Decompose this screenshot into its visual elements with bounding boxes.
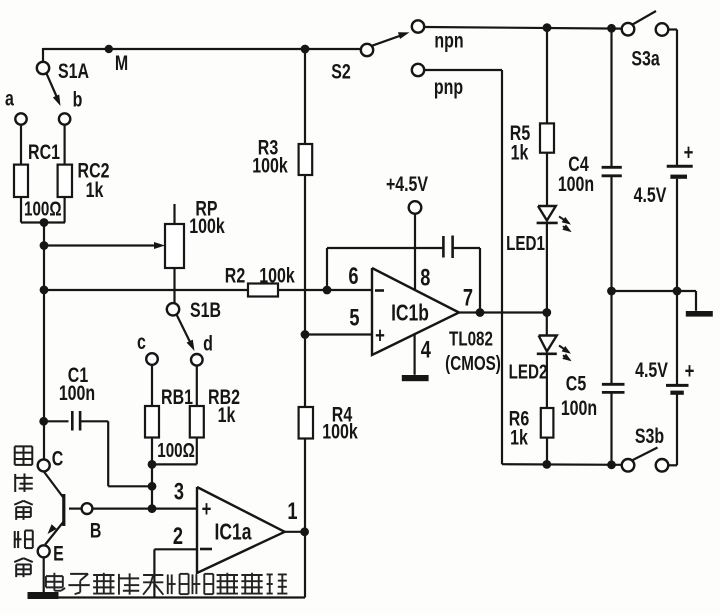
- svg-text:S3a: S3a: [631, 46, 660, 70]
- svg-text:4.5V: 4.5V: [634, 183, 667, 207]
- svg-text:B: B: [90, 518, 102, 542]
- svg-text:E: E: [53, 541, 64, 565]
- svg-text:5: 5: [349, 304, 359, 331]
- svg-text:+: +: [685, 359, 695, 384]
- svg-text:100Ω: 100Ω: [157, 439, 195, 462]
- svg-text:2: 2: [173, 523, 183, 550]
- svg-text:TL082: TL082: [449, 327, 493, 350]
- svg-text:b: b: [73, 87, 83, 111]
- svg-text:1k: 1k: [86, 178, 104, 202]
- svg-text:a: a: [5, 86, 14, 110]
- svg-text:3: 3: [174, 478, 184, 505]
- svg-text:100Ω: 100Ω: [24, 197, 62, 220]
- svg-text:S1B: S1B: [190, 298, 221, 322]
- svg-text:M: M: [115, 51, 128, 75]
- svg-text:S1A: S1A: [58, 59, 89, 83]
- svg-text:1k: 1k: [510, 425, 528, 449]
- svg-text:+4.5V: +4.5V: [386, 172, 429, 196]
- svg-text:d: d: [203, 331, 213, 355]
- svg-text:4.5V: 4.5V: [635, 358, 668, 382]
- svg-text:100n: 100n: [561, 396, 597, 420]
- svg-text:100k: 100k: [252, 153, 288, 177]
- svg-text:+: +: [375, 324, 385, 349]
- svg-text:100n: 100n: [558, 172, 594, 196]
- svg-text:1k: 1k: [218, 403, 236, 427]
- svg-text:pnp: pnp: [434, 75, 463, 99]
- svg-text:S3b: S3b: [635, 424, 664, 448]
- svg-text:100n: 100n: [59, 381, 95, 405]
- svg-text:R2: R2: [225, 263, 245, 287]
- svg-text:8: 8: [420, 264, 430, 291]
- svg-text:1k: 1k: [511, 140, 529, 164]
- svg-text:C5: C5: [566, 371, 586, 395]
- svg-text:IC1a: IC1a: [215, 520, 252, 545]
- svg-text:4: 4: [421, 336, 431, 363]
- svg-text:IC1b: IC1b: [391, 301, 429, 326]
- svg-text:100k: 100k: [259, 263, 295, 287]
- svg-text:C: C: [52, 446, 64, 470]
- svg-text:1: 1: [287, 498, 297, 525]
- svg-text:100k: 100k: [189, 214, 225, 238]
- svg-text:7: 7: [463, 284, 473, 311]
- svg-text:c: c: [137, 330, 146, 354]
- svg-text:npn: npn: [434, 28, 463, 52]
- svg-text:+: +: [684, 141, 694, 166]
- svg-text:100k: 100k: [322, 419, 358, 443]
- svg-text:RB1: RB1: [161, 385, 193, 409]
- svg-text:6: 6: [348, 263, 358, 290]
- svg-text:LED2: LED2: [509, 360, 548, 383]
- svg-text:+: +: [202, 497, 212, 522]
- svg-text:LED1: LED1: [506, 232, 545, 255]
- svg-text:(CMOS): (CMOS): [445, 352, 501, 375]
- svg-text:RC1: RC1: [28, 140, 60, 164]
- svg-text:S2: S2: [331, 59, 351, 83]
